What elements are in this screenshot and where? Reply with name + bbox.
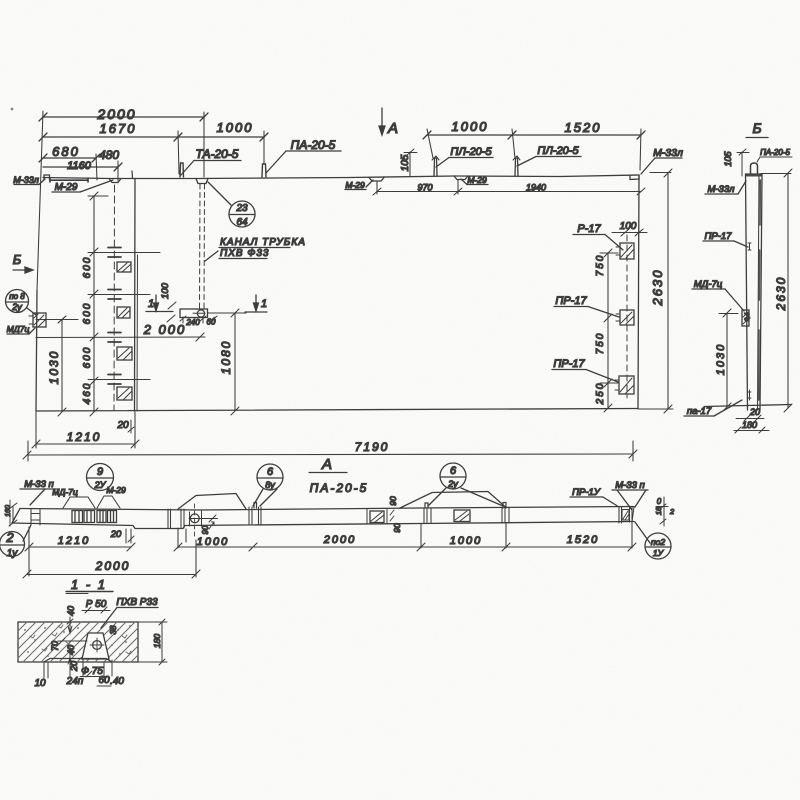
edge dip at 109-121 xyxy=(109,179,121,183)
svg-text:6: 6 xyxy=(267,466,274,478)
slab hatching xyxy=(18,622,138,662)
svg-text:680: 680 xyxy=(52,144,80,159)
extension lines top-left xyxy=(37,111,264,290)
svg-text:40: 40 xyxy=(66,606,76,616)
dim 1670 / 1000 top xyxy=(39,133,268,141)
tube circle in channel xyxy=(90,638,104,652)
М-33л corner plate left xyxy=(44,175,50,180)
tube detail rect xyxy=(180,309,246,318)
dim 1000 right section xyxy=(421,523,510,551)
dim 1080 vertical xyxy=(231,309,239,415)
svg-text:250: 250 xyxy=(595,382,606,406)
dim 750 lower xyxy=(600,318,618,387)
М-29 edge dip mid xyxy=(369,178,384,182)
svg-text:М-33л: М-33л xyxy=(13,175,39,185)
svg-text:600: 600 xyxy=(82,256,93,279)
svg-text:2630: 2630 xyxy=(650,269,665,307)
svg-text:20: 20 xyxy=(110,529,122,540)
svg-text:М-29: М-29 xyxy=(345,180,365,190)
svg-text:460: 460 xyxy=(82,382,93,405)
section cut 1-1 right mark xyxy=(245,295,267,312)
svg-text:.40: .40 xyxy=(110,676,124,687)
side loop tab xyxy=(751,163,758,174)
embedded squares pair 2 xyxy=(97,511,117,523)
dim 250 xyxy=(604,383,612,412)
svg-text:1000: 1000 xyxy=(197,536,229,548)
svg-text:180: 180 xyxy=(152,634,162,648)
dim 1520 section xyxy=(506,522,636,551)
svg-text:1у: 1у xyxy=(7,548,19,559)
svg-text:750: 750 xyxy=(595,254,606,277)
embedded squares pair 1 xyxy=(72,511,95,523)
svg-text:ПЛ-20-5: ПЛ-20-5 xyxy=(537,145,579,157)
М-33л corner plate right xyxy=(630,175,639,180)
dim 970 / 1940 xyxy=(373,180,645,195)
tick line at plate level xyxy=(36,316,78,323)
svg-text:8у: 8у xyxy=(265,480,275,490)
right plate 1 xyxy=(616,243,634,259)
svg-text:600: 600 xyxy=(82,346,93,369)
svg-text:2у: 2у xyxy=(447,479,458,489)
svg-text:23: 23 xyxy=(235,203,248,214)
loop dividers at 502-509 xyxy=(502,503,509,524)
dim 2000 section xyxy=(253,543,425,551)
svg-text:2000: 2000 xyxy=(95,559,131,573)
svg-text:6: 6 xyxy=(450,465,457,477)
concrete specks xyxy=(24,625,131,657)
anchor mark lower side xyxy=(748,390,751,400)
svg-text:10: 10 xyxy=(34,678,46,689)
loop dividers at 424-431 xyxy=(424,503,431,524)
svg-text:90: 90 xyxy=(201,525,210,534)
svg-text:1030: 1030 xyxy=(715,343,727,375)
bottom dim row: 1210 xyxy=(25,527,135,576)
svg-text:ПХВ Р33: ПХВ Р33 xyxy=(116,597,158,608)
svg-text:2000: 2000 xyxy=(96,106,136,122)
svg-text:Б: Б xyxy=(13,252,22,267)
svg-text:КАНАЛ ТРУБКА: КАНАЛ ТРУБКА xyxy=(220,237,306,248)
section mark А top xyxy=(379,108,385,135)
svg-text:ПР-17: ПР-17 xyxy=(553,358,585,370)
svg-text:Б: Б xyxy=(752,120,761,136)
svg-text:2У: 2У xyxy=(94,480,107,490)
callout circle 2/1у left xyxy=(0,525,31,557)
dim 160 left end xyxy=(9,503,17,526)
bottom recess xyxy=(44,659,112,663)
dim 750 upper xyxy=(600,249,618,322)
svg-text:970: 970 xyxy=(417,183,432,193)
svg-text:2630: 2630 xyxy=(774,276,788,312)
svg-text:Р 50: Р 50 xyxy=(86,599,107,610)
М-29 edge dip right xyxy=(454,176,468,180)
svg-text:1 - 1: 1 - 1 xyxy=(71,577,107,592)
svg-text:2: 2 xyxy=(5,530,14,545)
dim 1030 vertical xyxy=(58,316,66,416)
svg-text:по2: по2 xyxy=(651,537,665,547)
trapezoid 1 xyxy=(178,494,246,510)
svg-text:7190: 7190 xyxy=(355,440,390,454)
svg-text:МД-7ц: МД-7ц xyxy=(52,487,78,497)
ПА-20-5 loop tab xyxy=(262,164,266,177)
tube hole section xyxy=(189,504,218,536)
dim 2000 top xyxy=(39,113,208,121)
М-29 edge plate thick xyxy=(50,178,88,182)
svg-text:1210: 1210 xyxy=(58,535,90,547)
anchor marks on strip xyxy=(108,248,121,385)
strip plate 3 xyxy=(117,347,132,360)
ПЛ-20-5 loop 1 xyxy=(434,158,437,176)
svg-text:24п: 24п xyxy=(66,676,84,687)
svg-text:38: 38 xyxy=(109,625,118,634)
МД-7ц edge plate xyxy=(29,313,46,327)
left end block xyxy=(31,509,40,525)
right plate 3 xyxy=(615,376,634,394)
svg-text:60: 60 xyxy=(207,318,216,327)
svg-text:180: 180 xyxy=(742,420,757,430)
strip plate 2 xyxy=(117,307,130,318)
dim 1000 left section xyxy=(174,528,257,551)
svg-text:40: 40 xyxy=(66,645,76,655)
svg-text:ПР-17: ПР-17 xyxy=(555,295,587,307)
dim 180 right of slab xyxy=(138,619,167,665)
svg-text:ПА-20-5: ПА-20-5 xyxy=(291,138,336,152)
callout circle 6/2У mid xyxy=(428,463,503,506)
svg-text:А: А xyxy=(321,456,332,473)
svg-text:по 8: по 8 xyxy=(9,292,25,301)
svg-text:64: 64 xyxy=(236,217,248,228)
ПЛ-20-5 loop 2 xyxy=(515,158,518,176)
dim 1030 side xyxy=(719,309,738,411)
svg-text:1000: 1000 xyxy=(217,120,254,135)
svg-text:ПХВ Ф33: ПХВ Ф33 xyxy=(220,248,269,259)
svg-text:М-33л: М-33л xyxy=(653,147,683,159)
dim 1000 / 1520 top-right xyxy=(423,131,645,139)
channel void xyxy=(82,633,109,659)
left inner strip lines xyxy=(134,179,137,412)
dim 2630 side xyxy=(761,169,792,412)
svg-text:480: 480 xyxy=(99,148,119,162)
trapezoid 2 xyxy=(400,492,506,509)
svg-text:ПА-20-5: ПА-20-5 xyxy=(760,148,790,157)
svg-text:160: 160 xyxy=(5,505,12,517)
svg-text:1670: 1670 xyxy=(100,121,137,136)
dim 1210 plan xyxy=(32,412,139,448)
svg-text:9: 9 xyxy=(97,466,103,478)
callout circle 9/2У xyxy=(87,464,114,491)
svg-text:70: 70 xyxy=(50,641,60,651)
dim 1160 xyxy=(43,163,122,171)
svg-text:18: 18 xyxy=(654,506,663,515)
strip plate 4 xyxy=(117,387,132,400)
svg-text:0: 0 xyxy=(657,497,662,506)
svg-text:105: 105 xyxy=(400,154,411,171)
svg-text:100: 100 xyxy=(160,282,171,299)
svg-text:0,4: 0,4 xyxy=(745,312,751,321)
svg-text:1520: 1520 xyxy=(567,534,599,546)
dim 2630 plan xyxy=(638,169,673,413)
stray scan dot xyxy=(11,108,14,111)
svg-text:1У: 1У xyxy=(653,548,665,558)
svg-text:А: А xyxy=(387,120,398,137)
dim 7190 xyxy=(23,441,637,461)
callout circle по2/1У xyxy=(645,533,671,559)
callout circle 6/8у xyxy=(253,464,283,506)
svg-text:2 000: 2 000 xyxy=(143,322,187,337)
svg-text:20: 20 xyxy=(749,407,760,417)
svg-text:240: 240 xyxy=(185,318,200,327)
dim 105 xyxy=(404,149,417,176)
channel dip xyxy=(196,179,208,184)
svg-text:1: 1 xyxy=(261,298,267,310)
svg-text:105: 105 xyxy=(723,151,733,167)
svg-text:60: 60 xyxy=(98,675,110,686)
small stub at strip top xyxy=(131,171,134,178)
svg-text:20: 20 xyxy=(116,420,129,431)
concrete v-marks xyxy=(30,625,131,654)
svg-text:90: 90 xyxy=(388,496,398,506)
svg-text:600: 600 xyxy=(82,302,93,325)
svg-text:Р-17: Р-17 xyxy=(577,223,601,235)
svg-text:ПА-20-5: ПА-20-5 xyxy=(310,481,369,495)
strip dashed centerline xyxy=(113,185,116,410)
svg-text:750: 750 xyxy=(595,332,606,355)
svg-text:1940: 1940 xyxy=(526,183,546,193)
svg-text:1080: 1080 xyxy=(219,340,233,375)
svg-text:1520: 1520 xyxy=(565,120,602,135)
svg-text:2: 2 xyxy=(669,507,675,516)
right plate 2 xyxy=(616,310,634,325)
section cut 1-1 left mark xyxy=(146,295,173,312)
svg-text:2у: 2у xyxy=(11,302,22,312)
slab rect xyxy=(18,622,138,662)
panel top edge xyxy=(43,175,639,179)
bar outline xyxy=(20,507,634,511)
side column xyxy=(746,174,763,410)
panel outline left/bottom/right xyxy=(36,290,37,411)
svg-text:90: 90 xyxy=(392,523,402,533)
dim 2000 bottom left xyxy=(23,540,200,578)
svg-text:1160: 1160 xyxy=(67,160,92,172)
svg-text:ПЛ-20-5: ПЛ-20-5 xyxy=(450,146,492,158)
embedded plate mid with 90/90 xyxy=(367,509,387,524)
right end block xyxy=(619,507,634,524)
dim 680 xyxy=(39,154,100,162)
channel dashed lines xyxy=(200,184,205,309)
callout circle по8/2у xyxy=(6,290,37,316)
vertical dim 600s xyxy=(88,192,160,416)
joint dividers x168-184 xyxy=(168,509,184,528)
dark marks in side column band xyxy=(759,180,761,400)
svg-text:ТА-20-5: ТА-20-5 xyxy=(196,147,239,161)
side plate МД-7ц xyxy=(742,310,749,326)
callout circle 23/64 xyxy=(208,182,255,227)
svg-text:1030: 1030 xyxy=(47,350,61,385)
М-29 leader roof xyxy=(97,496,120,508)
ТА-20-5 loop tab xyxy=(180,163,184,177)
svg-text:МД7ц: МД7ц xyxy=(7,324,30,334)
svg-text:1000: 1000 xyxy=(452,119,489,134)
divider pair at 249-261 with tab xyxy=(249,503,261,525)
dashed centerline right plates xyxy=(626,235,628,398)
leader to по2 circle xyxy=(635,522,650,543)
strip plate 1 xyxy=(117,262,131,272)
embedded plate mid-right xyxy=(454,510,470,522)
svg-text:2000: 2000 xyxy=(323,534,356,546)
side ground line xyxy=(704,405,791,407)
svg-text:1210: 1210 xyxy=(67,430,102,444)
svg-text:1000: 1000 xyxy=(450,535,482,547)
МД-7ц leader roof xyxy=(63,497,95,508)
svg-text:1: 1 xyxy=(148,298,154,310)
dim 2000 centerline xyxy=(36,333,205,341)
